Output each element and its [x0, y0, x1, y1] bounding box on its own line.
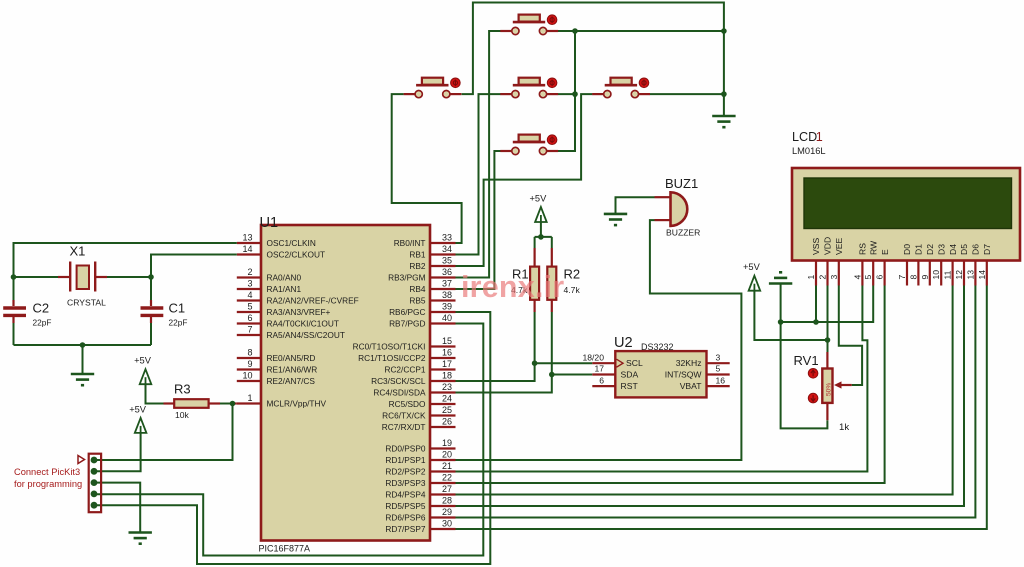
U1 pin 29 RD6/PSP6 — [385, 507, 455, 522]
wire: C1 top lead — [150, 277, 152, 306]
svg-text:17: 17 — [594, 364, 604, 374]
LCD1 pin 2 VDD — [818, 237, 833, 286]
svg-text:16: 16 — [716, 375, 726, 385]
svg-text:2: 2 — [247, 267, 252, 277]
wire: +5V to VDD and RV1 top — [754, 286, 827, 353]
connector J1 PicKit3 header — [78, 454, 101, 513]
U2 pin 17 SDA — [592, 364, 638, 380]
wire: D6 net LCD pin13 to U1 pin29 — [456, 286, 976, 518]
svg-text:LM016L: LM016L — [792, 146, 826, 156]
junction node (575,31) — [572, 28, 578, 34]
wire: ground stem (LCD) — [780, 284, 782, 323]
buzzer BUZ1 — [655, 192, 688, 226]
wire: SCL net R1 bottom / U2 SCL / U1 pin18 — [456, 312, 593, 381]
LCD1 pin 7 D0 — [897, 244, 912, 286]
ground (crystal) — [71, 374, 94, 385]
U1 pin 15 RC0/T1OSO/T1CKI — [353, 336, 456, 351]
svg-text:D0: D0 — [902, 244, 912, 255]
RV1 value label 1k — [839, 422, 849, 433]
capacitor C2 — [3, 308, 26, 315]
svg-text:4: 4 — [852, 275, 862, 280]
svg-text:RC4/SDI/SDA: RC4/SDI/SDA — [373, 388, 426, 398]
svg-text:OSC1/CLKIN: OSC1/CLKIN — [267, 238, 316, 248]
svg-text:RD3/PSP3: RD3/PSP3 — [385, 478, 426, 488]
wire: D5 net LCD pin12 to U1 pin28 — [456, 286, 965, 507]
wire: ground stem — [82, 345, 84, 374]
wire: SDA net R2 bottom / U2 SDA / U1 pin23 — [456, 312, 593, 393]
U1 pin 13 OSC1/CLKIN — [237, 233, 316, 248]
U1 pin 37 RB4 — [409, 279, 455, 294]
X1 reference label — [70, 244, 86, 259]
svg-text:2: 2 — [818, 275, 828, 280]
junction node (723.9,31) — [721, 28, 727, 34]
crystal X1 — [58, 262, 107, 292]
svg-text:C2: C2 — [33, 301, 50, 316]
svg-text:RD7/PSP7: RD7/PSP7 — [385, 524, 426, 534]
wire: D7 net LCD pin14 to U1 pin30 — [456, 286, 987, 530]
svg-text:D5: D5 — [959, 244, 969, 255]
svg-text:MCLR/Vpp/THV: MCLR/Vpp/THV — [267, 399, 327, 409]
U1 pin 16 RC1/T1OSI/CCP2 — [358, 348, 455, 363]
svg-text:14: 14 — [977, 270, 987, 280]
U2 pin 18/20 SCL — [582, 352, 642, 368]
svg-text:RB5: RB5 — [409, 296, 426, 306]
svg-text:INT/SQW: INT/SQW — [665, 370, 703, 380]
svg-text:9: 9 — [247, 359, 252, 369]
svg-text:30: 30 — [442, 519, 452, 529]
node B (crystal right) — [148, 274, 154, 280]
U1 pin 26 RC7/RX/DT — [382, 417, 456, 432]
svg-text:22: 22 — [442, 473, 452, 483]
wire: PGC net PicKit3 pin5 to U1 pin39 — [94, 312, 490, 564]
+5V power (LCD/RV1) — [743, 262, 761, 291]
svg-text:RE2/AN7/CS: RE2/AN7/CS — [267, 376, 316, 386]
wire: VSS/RW ground rail — [781, 286, 874, 323]
U2 pin 3 32KHz — [676, 352, 730, 368]
svg-text:X1: X1 — [70, 244, 86, 259]
junction node (82.5,345) — [80, 342, 86, 348]
wire: +5V to R3 left — [146, 384, 164, 403]
LCD1 pin 14 D7 — [977, 244, 992, 286]
svg-text:40: 40 — [442, 313, 452, 323]
svg-text:5: 5 — [716, 364, 721, 374]
U1 pin 27 RD4/PSP4 — [385, 484, 455, 499]
svg-text:D3: D3 — [936, 244, 946, 255]
wire: PicKit3 pin2 to +5V — [94, 433, 141, 471]
svg-text:E: E — [880, 249, 890, 255]
C1 reference label — [169, 301, 186, 316]
C2 reference label — [33, 301, 50, 316]
svg-text:RC7/RX/DT: RC7/RX/DT — [382, 422, 426, 432]
svg-text:15: 15 — [442, 336, 452, 346]
svg-text:6: 6 — [875, 275, 885, 280]
svg-text:RB2: RB2 — [409, 261, 426, 271]
svg-text:16: 16 — [442, 348, 452, 358]
svg-text:3: 3 — [716, 352, 721, 362]
U2 pin 6 RST — [592, 375, 638, 391]
svg-text:20: 20 — [442, 450, 452, 460]
svg-text:RD2/PSP2: RD2/PSP2 — [385, 467, 426, 477]
svg-text:12: 12 — [954, 270, 964, 280]
push button SW1 — [500, 15, 558, 35]
LCD module LCD1 LM016L — [792, 168, 1020, 261]
U1 reference label — [260, 215, 279, 231]
wire: E net LCD pin6 to U1 pin22 — [456, 286, 885, 484]
svg-text:+5V: +5V — [529, 194, 547, 204]
U2 pin 5 INT/SQW — [665, 364, 730, 380]
U2 part label DS3232 — [641, 342, 674, 352]
svg-text:RB4: RB4 — [409, 284, 426, 294]
svg-text:RB7/PGD: RB7/PGD — [389, 319, 425, 329]
U1 pin 36 RB3/PGM — [388, 267, 455, 282]
svg-text:RV1: RV1 — [794, 353, 819, 368]
svg-text:+5V: +5V — [129, 404, 147, 414]
svg-text:D6: D6 — [971, 244, 981, 255]
U1 pin 1 MCLR/Vpp/THV — [237, 393, 327, 408]
svg-text:4: 4 — [247, 290, 252, 300]
wire: crystal row left segment — [14, 276, 59, 278]
push button SW2 — [404, 78, 462, 98]
svg-text:CRYSTAL: CRYSTAL — [67, 298, 106, 308]
junction node (575,94.1) — [572, 91, 578, 97]
svg-text:RA1/AN1: RA1/AN1 — [267, 284, 302, 294]
LCD1 part label LM016L — [792, 146, 826, 156]
svg-text:RC5/SDO: RC5/SDO — [389, 399, 426, 409]
svg-text:14: 14 — [242, 244, 252, 254]
U1 pin 7 RA5/AN4/SS/C2OUT — [237, 325, 345, 340]
wire: SW4 right terminal to ground rail — [650, 93, 724, 95]
svg-text:RB6/PGC: RB6/PGC — [389, 307, 425, 317]
junction node (816,322) — [813, 319, 819, 325]
svg-text:22pF: 22pF — [33, 318, 52, 328]
svg-text:18/20: 18/20 — [582, 352, 604, 362]
U1 pin 40 RB7/PGD — [389, 313, 455, 328]
svg-text:24: 24 — [442, 394, 452, 404]
svg-text:8: 8 — [908, 275, 918, 280]
U1 pin 28 RD5/PSP5 — [385, 496, 455, 511]
svg-text:RA2/AN2/VREF-/CVREF: RA2/AN2/VREF-/CVREF — [267, 296, 359, 306]
svg-text:37: 37 — [442, 279, 452, 289]
svg-text:OSC2/CLKOUT: OSC2/CLKOUT — [267, 250, 326, 260]
svg-text:17: 17 — [442, 359, 452, 369]
wire: RB1 net - U1 pin34 to SW3 left terminal — [456, 94, 501, 254]
svg-text:RC6/TX/CK: RC6/TX/CK — [382, 411, 426, 421]
svg-text:13: 13 — [965, 270, 975, 280]
wire: VEE to RV1 wiper — [839, 286, 862, 386]
wire: RB3 net - U1 pin36 to SW1 left terminal — [456, 31, 501, 278]
U1 pin 39 RB6/PGC — [389, 302, 455, 317]
C2 value label 22pF — [33, 318, 52, 328]
svg-text:5: 5 — [863, 275, 873, 280]
LCD1 pin 5 RW — [863, 240, 878, 286]
svg-text:RC3/SCK/SCL: RC3/SCK/SCL — [371, 376, 426, 386]
svg-text:Connect PicKit3: Connect PicKit3 — [14, 467, 80, 477]
ground (PicKit3) — [129, 533, 152, 544]
wire: PicKit3 pin3 to ground — [94, 483, 140, 533]
svg-text:U2: U2 — [614, 335, 633, 351]
svg-text:RS: RS — [858, 243, 868, 255]
svg-text:DS3232: DS3232 — [641, 342, 674, 352]
wire: RB2 net - U1 pin35 to SW4 left terminal — [456, 94, 593, 266]
wire: RB4 net - U1 pin37 to SW5 left terminal — [456, 151, 501, 289]
LCD1 pin 8 D1 — [908, 244, 923, 286]
svg-text:RA5/AN4/SS/C2OUT: RA5/AN4/SS/C2OUT — [267, 330, 345, 340]
wire: C2 bottom lead to rail — [12, 316, 14, 345]
svg-text:6: 6 — [599, 375, 604, 385]
R1 reference label — [512, 267, 529, 282]
svg-text:5: 5 — [247, 302, 252, 312]
svg-text:RB3/PGM: RB3/PGM — [388, 273, 425, 283]
LCD1 pin 13 D6 — [965, 244, 980, 286]
svg-text:18: 18 — [442, 371, 452, 381]
svg-text:D4: D4 — [948, 244, 958, 255]
LCD1 pin 12 D5 — [954, 244, 969, 286]
svg-text:LCD: LCD — [792, 130, 817, 144]
resistor R3 — [164, 399, 221, 408]
+5V power (PicKit3) — [129, 404, 147, 433]
wire: +5V to R1/R2 tops — [535, 222, 552, 248]
svg-text:RE0/AN5/RD: RE0/AN5/RD — [267, 353, 316, 363]
svg-text:BUZ1: BUZ1 — [665, 176, 698, 191]
svg-text:9: 9 — [920, 275, 930, 280]
svg-text:3: 3 — [829, 275, 839, 280]
wire: bottom rail C2 to C1 — [14, 344, 152, 346]
resistor R1 — [530, 248, 539, 312]
U1 pin 30 RD7/PSP7 — [385, 519, 455, 534]
U1 pin 38 RB5 — [409, 290, 455, 305]
svg-text:RB0/INT: RB0/INT — [394, 238, 426, 248]
svg-text:RD4/PSP4: RD4/PSP4 — [385, 490, 426, 500]
svg-text:1k: 1k — [839, 422, 849, 433]
R3 reference label — [174, 382, 191, 397]
push button SW3 — [500, 78, 558, 98]
svg-text:13: 13 — [242, 233, 252, 243]
U1 pin 21 RD2/PSP2 — [385, 461, 455, 476]
svg-text:7: 7 — [897, 275, 907, 280]
svg-text:D7: D7 — [982, 244, 992, 255]
svg-text:BUZZER: BUZZER — [666, 228, 700, 238]
wire: C2 top lead — [13, 277, 15, 306]
junction node (827.5,340) — [825, 337, 831, 343]
wire: RS net LCD pin4 to U1 pin21 — [456, 286, 868, 472]
U1 pin 8 RE0/AN5/RD — [237, 348, 316, 363]
svg-text:1: 1 — [816, 130, 823, 144]
svg-text:RST: RST — [621, 381, 639, 391]
svg-text:33: 33 — [442, 233, 452, 243]
wire: C1 bottom lead to rail — [150, 316, 152, 345]
svg-text:6: 6 — [247, 313, 252, 323]
svg-text:10k: 10k — [175, 410, 190, 420]
svg-text:R2: R2 — [564, 267, 581, 282]
wire: crystal row right segment — [107, 276, 151, 278]
U2 reference label — [614, 335, 633, 351]
LCD1 reference label — [792, 130, 823, 144]
svg-text:29: 29 — [442, 507, 452, 517]
X1 value label CRYSTAL — [67, 298, 106, 308]
svg-text:+5V: +5V — [134, 356, 152, 366]
svg-text:RA4/T0CKI/C1OUT: RA4/T0CKI/C1OUT — [267, 319, 339, 329]
junction node (723.9,94.1) — [721, 91, 727, 97]
svg-text:SCL: SCL — [626, 358, 643, 368]
U1 pin 34 RB1 — [409, 244, 455, 259]
wire: D4 net LCD pin11 to U1 pin27 — [456, 286, 953, 495]
push button SW4 — [592, 78, 650, 98]
wire: R3 right to MCLR pin and down to PicKit3 pin1 — [94, 404, 237, 461]
svg-text:RD6/PSP6: RD6/PSP6 — [385, 513, 426, 523]
svg-text:1: 1 — [247, 393, 252, 403]
wire: row1 ground wire SW1 right terminal to right rail — [558, 30, 724, 32]
svg-text:SDA: SDA — [621, 370, 639, 380]
LCD1 pin 9 D2 — [920, 244, 935, 286]
svg-text:28: 28 — [442, 496, 452, 506]
svg-text:34: 34 — [442, 244, 452, 254]
svg-text:7: 7 — [247, 325, 252, 335]
ground (LCD, inverted) — [769, 272, 792, 283]
wire: top ground rail from SW2 right terminal to top-right corner — [462, 3, 724, 117]
svg-text:8: 8 — [247, 348, 252, 358]
U1 pin 4 RA2/AN2/VREF-/CVREF — [237, 290, 359, 305]
svg-text:10: 10 — [931, 270, 941, 280]
svg-text:+5V: +5V — [743, 262, 761, 272]
+5V power (MCLR pull-up) — [134, 356, 152, 385]
LCD1 pin 1 VSS — [806, 238, 821, 286]
R2 reference label — [564, 267, 581, 282]
svg-text:RC1/T1OSI/CCP2: RC1/T1OSI/CCP2 — [358, 353, 426, 363]
BUZ1 type label BUZZER — [666, 228, 700, 238]
svg-text:VDD: VDD — [823, 237, 833, 255]
R2 value label 4.7k — [564, 285, 581, 295]
U1 pin 3 RA1/AN1 — [237, 279, 302, 294]
svg-text:3: 3 — [247, 279, 252, 289]
resistor R2 — [547, 248, 556, 312]
svg-text:PIC16F877A: PIC16F877A — [259, 544, 311, 554]
LCD1 pin 6 E — [875, 249, 890, 286]
U1 pin 22 RD3/PSP3 — [385, 473, 455, 488]
junction node (780.6,322) — [778, 319, 784, 325]
U1 pin 23 RC4/SDI/SDA — [373, 382, 455, 397]
svg-text:C1: C1 — [169, 301, 186, 316]
svg-text:4.7k: 4.7k — [564, 285, 581, 295]
svg-text:RD5/PSP5: RD5/PSP5 — [385, 501, 426, 511]
svg-text:RC0/T1OSO/T1CKI: RC0/T1OSO/T1CKI — [353, 342, 426, 352]
U1 pin 20 RD1/PSP1 — [385, 450, 455, 465]
svg-text:RC2/CCP1: RC2/CCP1 — [384, 365, 425, 375]
svg-text:32KHz: 32KHz — [676, 358, 702, 368]
R1 value label 4.7k — [511, 285, 528, 295]
svg-text:RD1/PSP1: RD1/PSP1 — [385, 455, 426, 465]
wire: buzzer bottom terminal to U1 pin20 RD1 — [456, 220, 742, 460]
svg-text:23: 23 — [442, 382, 452, 392]
svg-text:21: 21 — [442, 461, 452, 471]
U2 pin 16 VBAT — [680, 375, 730, 391]
potentiometer RV1 1k — [808, 352, 851, 420]
wire: OSC2 net U1 pin14 to crystal right node — [151, 255, 237, 278]
svg-text:26: 26 — [442, 417, 452, 427]
U1 pin 14 OSC2/CLKOUT — [237, 244, 325, 259]
svg-text:irenx.ir: irenx.ir — [461, 270, 564, 304]
RTC U2 DS3232 — [615, 351, 706, 397]
svg-text:38: 38 — [442, 290, 452, 300]
U1 part label PIC16F877A — [259, 544, 311, 554]
svg-text:27: 27 — [442, 484, 452, 494]
U1 pin 9 RE1/AN6/WR — [237, 359, 317, 374]
U1 pin 24 RC5/SDO — [389, 394, 456, 409]
svg-text:VSS: VSS — [811, 238, 821, 255]
push button SW5 — [500, 135, 558, 155]
svg-text:22pF: 22pF — [169, 318, 188, 328]
LCD1 pin 3 VEE — [829, 238, 844, 286]
svg-text:19: 19 — [442, 438, 452, 448]
wire: RV1 bottom to ground rail — [781, 322, 828, 428]
svg-text:RW: RW — [868, 240, 878, 255]
U1 pin 6 RA4/T0CKI/C1OUT — [237, 313, 339, 328]
junction node (551.8,374.5) — [549, 372, 555, 378]
svg-text:VEE: VEE — [834, 238, 844, 255]
wire: OSC1 net U1 pin13 to crystal left node — [14, 243, 237, 277]
svg-text:D2: D2 — [925, 244, 935, 255]
LCD1 pin 11 D4 — [943, 244, 958, 286]
wire: RB0/INT net - U1 pin33 to SW2 left terminal — [392, 94, 462, 243]
svg-text:10: 10 — [242, 371, 252, 381]
svg-text:RB1: RB1 — [409, 250, 426, 260]
C1 value label 22pF — [169, 318, 188, 328]
svg-text:VBAT: VBAT — [680, 381, 703, 391]
svg-text:D1: D1 — [914, 244, 924, 255]
microcontroller U1 PIC16F877A — [261, 225, 430, 541]
capacitor C1 — [141, 308, 164, 315]
ground (button rail) — [712, 116, 735, 127]
svg-text:U1: U1 — [260, 215, 279, 231]
U1 pin 18 RC3/SCK/SCL — [371, 371, 455, 386]
U1 pin 10 RE2/AN7/CS — [237, 371, 316, 386]
ground (buzzer) — [604, 214, 627, 225]
label: Connect PicKit3 for programming — [14, 467, 82, 489]
U1 pin 17 RC2/CCP1 — [384, 359, 455, 374]
svg-text:50%: 50% — [825, 383, 832, 396]
U1 pin 35 RB2 — [409, 256, 455, 271]
svg-text:for programming: for programming — [14, 479, 82, 489]
svg-text:1: 1 — [806, 275, 816, 280]
junction node (232.5,403.5) — [230, 401, 236, 407]
svg-text:11: 11 — [943, 270, 953, 279]
U1 pin 25 RC6/TX/CK — [382, 405, 455, 420]
svg-text:RE1/AN6/WR: RE1/AN6/WR — [267, 365, 318, 375]
LCD1 pin 10 D3 — [931, 244, 946, 286]
svg-text:35: 35 — [442, 256, 452, 266]
node A (crystal left) — [11, 274, 17, 280]
LCD1 pin 4 RS — [852, 243, 867, 286]
svg-text:R3: R3 — [174, 382, 191, 397]
U1 pin 2 RA0/AN0 — [237, 267, 302, 282]
svg-text:39: 39 — [442, 302, 452, 312]
svg-text:RA3/AN3/VREF+: RA3/AN3/VREF+ — [267, 307, 331, 317]
svg-text:RA0/AN0: RA0/AN0 — [267, 273, 302, 283]
U1 pin 19 RD0/PSP0 — [385, 438, 455, 453]
junction node (534.6,363.2) — [532, 360, 538, 366]
U1 pin 5 RA3/AN3/VREF+ — [237, 302, 331, 317]
svg-text:25: 25 — [442, 405, 452, 415]
+5V power (I2C pull-ups) — [529, 194, 547, 223]
R3 value label 10k — [175, 410, 190, 420]
wire: vertical ground link node(575,31) to node(575,94) down to SW5 right — [558, 31, 575, 151]
BUZ1 reference label — [665, 176, 698, 191]
junction node (540.9,236.9) — [538, 234, 544, 240]
wire: buzzer top terminal to ground — [616, 197, 655, 214]
watermark irenx.ir — [461, 270, 564, 304]
svg-text:RD0/PSP0: RD0/PSP0 — [385, 444, 426, 454]
wire: PGD net PicKit3 pin4 to U1 pin40 — [94, 324, 483, 556]
RV1 reference label — [794, 353, 819, 368]
